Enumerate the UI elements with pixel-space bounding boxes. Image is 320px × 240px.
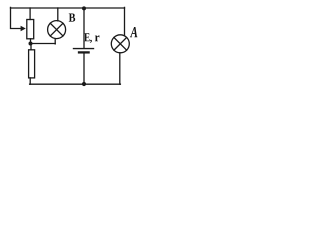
wire left side down to wiper xyxy=(11,7,22,28)
wire right side xyxy=(124,7,126,35)
wire R1 bottom lead xyxy=(30,39,32,44)
node junction dot (left) xyxy=(29,42,33,46)
label A xyxy=(130,27,138,37)
wire lamp B bottom lead xyxy=(54,39,56,44)
label E, r xyxy=(84,33,99,43)
resistor R1 (rheostat body) xyxy=(27,20,34,39)
wire lamp B top lead xyxy=(57,8,59,21)
resistor R2 xyxy=(29,50,35,78)
wire middle horizontal xyxy=(31,43,56,45)
battery long plate xyxy=(74,48,94,50)
rheostat wiper arrow xyxy=(21,26,26,31)
wire R2 bottom lead xyxy=(29,78,31,84)
node dot on bottom wire xyxy=(82,82,86,86)
wire R1 top lead xyxy=(29,8,31,20)
node dot on top wire xyxy=(82,6,86,10)
wire battery top lead xyxy=(83,8,85,48)
wire battery bottom lead xyxy=(83,53,85,84)
lamp A xyxy=(111,35,129,53)
lamp B xyxy=(48,21,66,39)
wire top xyxy=(11,7,125,9)
wire bottom xyxy=(30,83,121,85)
wire R2 top lead xyxy=(30,44,32,50)
battery short thick plate xyxy=(79,51,89,53)
label B xyxy=(69,14,75,22)
wire lamp A bottom lead xyxy=(119,53,121,84)
